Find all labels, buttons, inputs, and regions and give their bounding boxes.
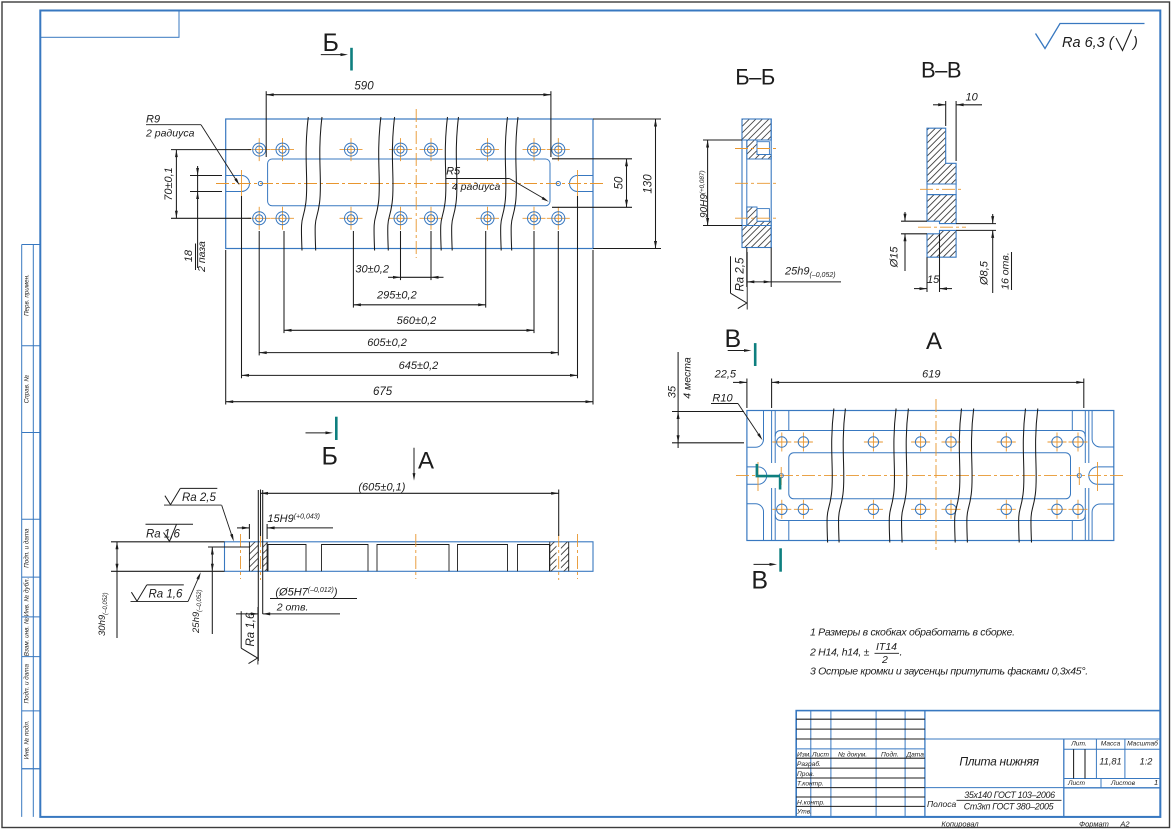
svg-text:Инв. № подл.: Инв. № подл. [23,720,31,759]
dim 560+-0.2 [284,329,534,331]
dim D5H7 2 holes [257,490,259,661]
view A 5H7 holes [779,474,783,478]
Ra 1.6 rotated on hole axis [241,607,258,665]
svg-text:R10: R10 [712,393,733,405]
svg-text:Полоса: Полоса [927,799,956,809]
svg-text:Дата: Дата [906,752,925,759]
dim 10 [945,101,947,126]
svg-text:Листов: Листов [1110,780,1136,787]
dim 295+-0.2 [353,304,485,306]
dim 50 [552,158,632,160]
svg-text:Б: Б [323,29,339,57]
svg-text:605±0,2: 605±0,2 [367,337,407,349]
side view outline [225,542,594,572]
svg-text:30±0,2: 30±0,2 [355,264,389,276]
view A right slot [1089,467,1114,484]
svg-text:Справ. №: Справ. № [24,375,31,404]
svg-text:Подп. и дата: Подп. и дата [23,664,31,704]
svg-text:Утв.: Утв. [796,809,812,816]
section B-B centerlines [735,148,778,150]
view A top pocket band [788,411,790,431]
dim 22.5 [746,379,748,409]
section B-B top step [747,140,771,159]
svg-text:R9: R9 [146,114,160,126]
svg-text:675: 675 [373,386,393,398]
svg-text:Ra 1,6: Ra 1,6 [149,589,183,601]
svg-text:1: 1 [1154,778,1158,787]
svg-text:Изм.: Изм. [797,752,811,759]
section mark B-top [350,48,353,71]
svg-text:4 места: 4 места [682,357,694,399]
svg-text:4 радиуса: 4 радиуса [452,181,501,193]
svg-text:2 Н14, h14, ±: 2 Н14, h14, ± [809,647,870,659]
svg-text:1:2: 1:2 [1140,757,1153,767]
dim 35 4 places [672,411,744,413]
svg-text:А: А [926,328,942,355]
svg-text:35: 35 [667,385,679,398]
svg-text:Формат: Формат [1079,820,1109,829]
view A inner right rim lines [1084,411,1086,464]
svg-text:Ra 1,6: Ra 1,6 [146,529,180,541]
svg-text:.: . [900,647,903,659]
svg-text:35х140 ГОСТ 103–2006: 35х140 ГОСТ 103–2006 [964,790,1055,800]
svg-text:Ra 6,3 (: Ra 6,3 ( [1062,35,1116,51]
dim 15 [926,257,928,292]
svg-text:Н.контр.: Н.контр. [797,800,825,807]
section V-V lower block [927,195,956,224]
svg-text:2 радиуса: 2 радиуса [145,128,195,140]
svg-text:Плита нижняя: Плита нижняя [959,755,1039,769]
svg-text:1 Размеры в скобках обработат: 1 Размеры в скобках обработать в сборке. [810,627,1015,639]
title block [796,711,1160,817]
svg-text:Подп. и дата: Подп. и дата [23,528,31,568]
dim (605+-0.1) [260,490,262,537]
svg-text:619: 619 [922,369,940,381]
view A break lines [827,409,834,543]
svg-text:Лит.: Лит. [1070,741,1087,748]
svg-text:560±0,2: 560±0,2 [397,315,437,327]
main view: milled pocket [268,159,550,206]
view A inner left rim lines [771,411,773,464]
svg-text:2 паза: 2 паза [196,241,208,273]
svg-text:11,81: 11,81 [1099,757,1121,767]
svg-text:Ø8,5: Ø8,5 [979,260,991,286]
section V-V centerlines [920,188,963,190]
svg-text:2 отв.: 2 отв. [276,602,309,614]
side view hatched sections [249,542,568,572]
Ra 1.6 lower with leader [131,585,189,602]
svg-text:Ø15: Ø15 [889,246,901,269]
dim D15 [901,220,927,222]
svg-text:Масса: Масса [1101,741,1121,748]
side view centerlines [240,534,242,579]
svg-text:Б: Б [322,443,338,471]
main view: right slot with R9 end [570,176,594,192]
view A section trace B stepped (teal) [756,464,759,476]
main view: slot end centerlines [241,170,243,197]
dim 130 [593,118,661,120]
svg-text:Перв. примен.: Перв. примен. [24,274,31,316]
section V-V slot band [927,183,956,185]
dim 25h9 [746,248,748,288]
svg-text:Разраб.: Разраб. [797,760,821,768]
svg-text:Ra 2,5: Ra 2,5 [734,257,746,291]
Ra 2.5 mark on B-B [731,252,748,310]
svg-text:А2: А2 [1119,820,1130,829]
dim 605+-0.2 [259,352,558,354]
svg-text:2: 2 [881,654,888,666]
svg-text:Инв. № дубл.: Инв. № дубл. [23,578,31,617]
svg-text:3 Острые кромки и заусенцы пр: 3 Острые кромки и заусенцы притупить фас… [810,666,1088,678]
dim 90H9 [703,139,742,141]
main view: 5H7 dowel holes [258,181,262,185]
dim 645+-0.2 [242,374,578,376]
svg-text:645±0,2: 645±0,2 [399,360,439,372]
svg-text:295±0,2: 295±0,2 [376,290,417,302]
dim 18 (2 slots) [190,175,222,177]
Ra 2.5 with leader [164,488,222,505]
main view: break lines [301,117,308,251]
section mark V-top [754,343,757,366]
main view: bolt holes (16) [258,138,260,161]
svg-text:130: 130 [643,174,655,194]
section V-V upper block [927,128,956,184]
section B-B left wall line [746,140,748,226]
svg-text:R5: R5 [446,166,461,178]
svg-text:): ) [1131,35,1138,51]
view A centerlines [736,475,1126,477]
svg-text:Взам. инв. №: Взам. инв. № [24,617,31,656]
main view: plate outline [226,119,593,249]
dim 619 [1083,379,1085,409]
dim D8.5 16 holes [956,223,996,225]
svg-text:Пров.: Пров. [797,771,815,778]
dim 590 [265,91,267,157]
svg-text:10: 10 [966,92,979,104]
svg-text:Ra 2,5: Ra 2,5 [182,492,216,504]
svg-text:№ докум.: № докум. [838,751,867,759]
svg-text:Копировал: Копировал [941,820,979,829]
section B-B bottom step [747,207,771,226]
svg-text:IT14: IT14 [876,641,897,653]
svg-text:Масштаб: Масштаб [1127,740,1158,748]
svg-text:В: В [725,325,742,353]
dim 30h9 [111,541,225,543]
general roughness Ra 6.3 [1036,24,1145,49]
svg-text:Подп.: Подп. [881,751,899,759]
svg-text:16 отв.: 16 отв. [1000,252,1012,290]
view A bottom pocket band [788,521,790,541]
section B-B top hatch block [742,119,771,140]
dim 15H9 [248,524,250,539]
svg-text:Ст3кп ГОСТ 380–2005: Ст3кп ГОСТ 380–2005 [964,802,1054,812]
section B-B bottom hatch block [742,226,771,248]
svg-text:22,5: 22,5 [714,369,737,381]
main view: vertical centerline [415,109,417,258]
view A central pocket [789,453,1071,499]
section mark V-bottom [779,548,782,571]
svg-text:15: 15 [927,274,940,286]
svg-text:70±0,1: 70±0,1 [163,167,175,201]
svg-text:Лист: Лист [811,752,829,759]
dim 70+-0.1 [171,149,251,151]
svg-text:В–В: В–В [921,58,961,83]
svg-text:590: 590 [354,81,374,93]
Ra 1.6 upper [146,523,194,525]
svg-text:(605±0,1): (605±0,1) [358,482,405,494]
view A corner notches [747,411,764,448]
side view pocket ribs [268,545,306,572]
svg-text:50: 50 [614,176,626,189]
top-left frame box [40,11,179,38]
dim 30+-0.2 [388,276,401,278]
svg-text:Лист: Лист [1067,780,1085,787]
section mark B-bottom [335,417,338,440]
svg-text:А: А [418,448,434,475]
dim 675 [226,401,593,403]
section B-B body outline [742,119,771,248]
left margin graph boxes [21,245,23,817]
main view: horizontal centerline [216,183,604,185]
view A outline [747,411,1114,541]
svg-text:В: В [751,567,768,595]
svg-text:Ra 1,6: Ra 1,6 [245,612,257,646]
dim stack extension lines [225,250,227,405]
svg-text:18: 18 [183,249,195,262]
view A holes (16) [781,433,783,452]
dim 25h9 side [208,546,250,548]
view arrow A (for side view) [413,448,415,476]
svg-text:Б–Б: Б–Б [735,65,775,90]
svg-text:Т.контр.: Т.контр. [797,781,824,788]
view A left slot [747,467,767,484]
main view: left slot with R9 end [226,176,250,192]
